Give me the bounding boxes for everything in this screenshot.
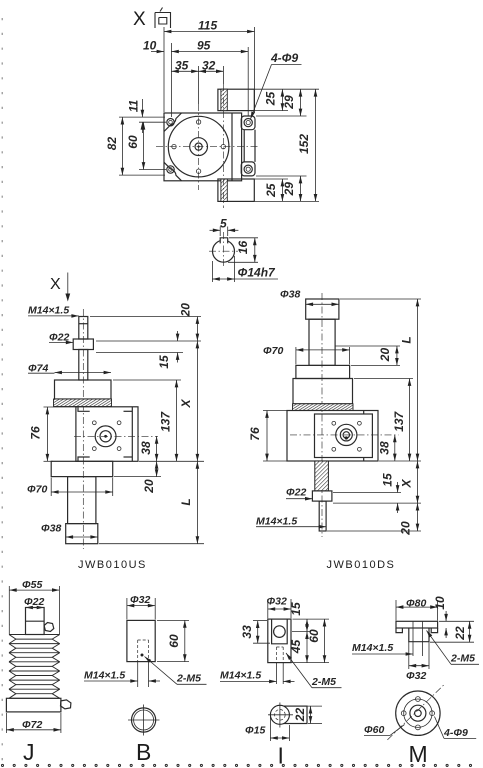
wheel hub hole xyxy=(195,143,202,150)
screw rod end M14 DS xyxy=(319,501,326,531)
svg-text:15: 15 xyxy=(381,473,395,487)
svg-text:15: 15 xyxy=(157,355,171,369)
svg-text:16: 16 xyxy=(236,241,250,255)
dim 33 I xyxy=(257,621,259,644)
dim 11 (outside arrows) xyxy=(141,99,143,117)
ext line flange hole column xyxy=(247,47,249,116)
ext flange top right xyxy=(256,115,307,117)
dim 20 chain DS xyxy=(417,503,419,531)
worm shaft circle mid DS xyxy=(340,429,352,441)
ext hole right below B xyxy=(148,662,150,687)
svg-text:JWB010DS: JWB010DS xyxy=(327,559,396,571)
svg-text:29: 29 xyxy=(282,95,296,110)
crosshair I xyxy=(268,714,293,716)
rod chamfer line xyxy=(79,323,88,325)
svg-text:20: 20 xyxy=(399,521,413,536)
bellows accordion xyxy=(9,635,60,699)
svg-text:Φ38: Φ38 xyxy=(280,289,300,301)
svg-text:22: 22 xyxy=(453,626,467,641)
svg-text:38: 38 xyxy=(378,441,392,455)
svg-text:20: 20 xyxy=(378,348,392,363)
top bush J xyxy=(26,608,45,635)
svg-text:76: 76 xyxy=(29,426,43,440)
dim 32 xyxy=(199,70,224,72)
worm axis centerline horizontal xyxy=(74,435,158,437)
svg-text:M14×1.5: M14×1.5 xyxy=(352,642,393,654)
dim 25 top xyxy=(281,89,283,110)
svg-text:M14×1.5: M14×1.5 xyxy=(28,305,69,317)
bush step line xyxy=(26,620,45,622)
ext stem left below M xyxy=(408,642,410,669)
tapped hole dashed I xyxy=(276,647,278,663)
inner square housing DS xyxy=(315,414,373,458)
dim 137 xyxy=(176,380,178,461)
ext 76 bottom DS xyxy=(263,460,290,462)
top cap phi74 DS xyxy=(293,379,353,404)
crosshair B xyxy=(128,719,160,721)
step top-left xyxy=(78,407,90,412)
ext 16 bottom xyxy=(228,261,258,263)
stem M xyxy=(409,628,429,642)
worm axis centerline DS xyxy=(290,434,399,436)
inner boss I xyxy=(272,619,288,644)
shaft circle xyxy=(213,240,235,262)
dim phi80 M xyxy=(396,606,438,608)
dim 115 xyxy=(164,31,255,33)
cover bolt BL DS xyxy=(332,447,336,451)
svg-text:L: L xyxy=(179,498,193,505)
ext line wheel center up xyxy=(198,66,200,104)
dim 60 I xyxy=(324,619,326,663)
svg-text:Φ55: Φ55 xyxy=(22,579,42,591)
svg-text:M14×1.5: M14×1.5 xyxy=(84,670,125,682)
ext 33 bottom I xyxy=(253,642,270,644)
ext stem right below M xyxy=(428,642,430,669)
seal ring band DS (hatched) xyxy=(293,404,354,411)
inner circle M xyxy=(410,705,426,721)
keyway slot xyxy=(220,237,227,243)
dim 76 DS xyxy=(266,411,268,462)
cover bolt TR DS xyxy=(358,421,362,425)
bolt hole top-left xyxy=(167,119,174,126)
svg-text:X: X xyxy=(400,479,414,489)
dim 38 xyxy=(156,436,158,461)
body internal right edge xyxy=(231,113,233,181)
bolt hole bottom-left xyxy=(167,166,174,173)
ext phi80 right M xyxy=(437,600,439,621)
flange plate DS xyxy=(296,365,350,378)
stop collar phi22 DS xyxy=(312,491,332,501)
svg-text:137: 137 xyxy=(392,410,406,431)
dim L chain DS xyxy=(417,299,419,461)
svg-text:Φ70: Φ70 xyxy=(263,345,283,357)
dim 5 (outside arrows) xyxy=(210,229,221,231)
dim 20 bottom xyxy=(156,461,158,476)
ext phi70 right DS xyxy=(349,347,351,364)
ext line worm center up xyxy=(222,66,224,84)
cover bolt BL xyxy=(92,447,96,451)
dim 45 I xyxy=(306,632,308,663)
ext phi32 left B xyxy=(126,598,128,619)
svg-text:Φ74: Φ74 xyxy=(28,362,48,374)
svg-text:60: 60 xyxy=(126,135,140,149)
dim 25 bottom xyxy=(281,179,283,201)
svg-text:95: 95 xyxy=(197,39,211,53)
ext 60 top B xyxy=(157,619,189,621)
dim 15 DS (outside arrows) xyxy=(397,482,399,493)
shaft centerline vertical xyxy=(223,232,225,268)
dim phi38 xyxy=(66,536,98,538)
dim 15 I xyxy=(306,619,308,632)
cover screw hole E xyxy=(221,144,225,148)
seal ring band (hatched) xyxy=(54,399,112,407)
ext tab top edge right xyxy=(255,88,319,90)
svg-text:10: 10 xyxy=(433,596,447,610)
dim 29 top xyxy=(300,89,302,116)
ext 76 bottom US xyxy=(44,460,54,462)
ext phi15 right I xyxy=(288,725,290,741)
ext phi72 right xyxy=(60,713,62,733)
ext 33 top I xyxy=(253,620,267,622)
flange pad bottom xyxy=(241,162,255,176)
ext flange bottom right xyxy=(256,175,307,177)
svg-text:Φ32: Φ32 xyxy=(130,594,150,606)
dim 20 upper DS xyxy=(396,346,398,365)
svg-text:M14×1.5: M14×1.5 xyxy=(256,515,297,527)
screw centerline xyxy=(82,309,84,549)
ext phi55 right xyxy=(58,586,60,634)
flange lip right M xyxy=(431,628,437,633)
dim 22 I xyxy=(310,706,312,723)
tapped hole lines M xyxy=(412,622,414,657)
flange pad top xyxy=(241,116,255,130)
svg-text:J: J xyxy=(23,739,35,765)
ext 82 bottom xyxy=(119,174,165,176)
flange lip left M xyxy=(396,628,402,633)
worm shaft circle inner DS xyxy=(343,432,349,438)
ext 76 top US xyxy=(44,406,78,408)
screw rod upper xyxy=(79,317,88,340)
M5 point dot B xyxy=(141,654,144,657)
dim phi72 xyxy=(6,729,61,731)
svg-text:Φ22: Φ22 xyxy=(24,596,44,608)
bolt hole N M xyxy=(416,697,421,702)
dim phi55 xyxy=(9,589,59,591)
cover bolt TL xyxy=(92,421,96,425)
ext rod top right xyxy=(90,316,201,318)
flange bolt hole top xyxy=(244,119,252,127)
dim 60 xyxy=(143,122,145,169)
bolt circle phi60 M xyxy=(404,699,432,727)
svg-text:25: 25 xyxy=(264,92,278,107)
dim X chain DS xyxy=(417,461,419,503)
cover bolt TL DS xyxy=(332,421,336,425)
protection tube DS xyxy=(309,319,335,365)
ext phi32 right I xyxy=(290,599,292,618)
ext body bottom right xyxy=(139,460,204,462)
corner chamfer top-left xyxy=(164,113,182,132)
ext keyway left xyxy=(219,227,221,237)
end view I : side tab xyxy=(283,706,307,723)
svg-text:X: X xyxy=(133,9,146,30)
dim phi74 xyxy=(55,372,112,374)
dim phi22 J xyxy=(26,607,45,609)
ext phi55 left xyxy=(8,586,10,634)
svg-text:Φ22: Φ22 xyxy=(49,332,69,344)
ext collar bottom right xyxy=(96,352,183,354)
worm tube tab bottom xyxy=(218,179,254,201)
ext cap top right xyxy=(113,379,181,381)
corner chamfer bottom-left xyxy=(164,162,182,181)
svg-text:32: 32 xyxy=(202,58,216,72)
svg-text:Φ70: Φ70 xyxy=(27,484,47,496)
svg-text:5: 5 xyxy=(220,217,227,231)
block I xyxy=(268,619,291,663)
grease fitting hex top xyxy=(44,623,54,632)
ext travel line DS xyxy=(335,345,400,347)
svg-text:2-M5: 2-M5 xyxy=(311,676,336,688)
svg-text:20: 20 xyxy=(179,303,193,318)
dim 10 xyxy=(151,51,164,53)
worm shaft center dot xyxy=(104,435,107,438)
svg-text:60: 60 xyxy=(167,634,181,648)
bottom cap phi38 xyxy=(66,524,98,544)
svg-text:JWB010US: JWB010US xyxy=(78,559,147,571)
dim 137 DS xyxy=(409,379,411,462)
dim L chain xyxy=(196,461,198,543)
flange web right edge xyxy=(254,130,256,162)
ext phi72 left xyxy=(5,713,7,733)
cover bolt TR xyxy=(117,421,121,425)
svg-text:Φ22: Φ22 xyxy=(286,487,306,499)
dim 152 xyxy=(315,89,317,201)
ext center I xyxy=(292,631,311,633)
dim phi32 M xyxy=(409,665,429,667)
svg-text:Φ32: Φ32 xyxy=(406,670,426,682)
ext phi70 left xyxy=(50,478,52,496)
svg-text:60: 60 xyxy=(307,629,321,643)
step marks DS right xyxy=(363,411,365,462)
worm shaft center dot DS xyxy=(345,436,348,439)
dim phi70 xyxy=(51,491,112,493)
svg-text:Φ72: Φ72 xyxy=(22,719,42,731)
ext tab top edge bottom right xyxy=(255,178,288,180)
cross hole circle I xyxy=(274,626,286,638)
svg-text:Φ32: Φ32 xyxy=(267,596,287,608)
svg-text:4-Φ9: 4-Φ9 xyxy=(270,51,299,65)
svg-text:B: B xyxy=(136,739,151,765)
worm shaft circle outer xyxy=(95,426,116,447)
end view circle I xyxy=(270,705,289,724)
ext cap top DS right xyxy=(340,298,421,300)
ext 60 top I xyxy=(293,618,330,620)
stop collar phi22 xyxy=(73,339,93,350)
svg-text:15: 15 xyxy=(289,602,303,616)
ext tab bottom edge right xyxy=(255,110,288,112)
end view circle B xyxy=(132,708,156,732)
bottom collar J xyxy=(6,698,61,712)
ext phi14 left xyxy=(211,261,213,282)
step bottom-right xyxy=(124,456,133,458)
ext flange top DS right xyxy=(351,364,400,366)
bottom view outer circle M xyxy=(396,691,440,735)
svg-text:22: 22 xyxy=(293,708,307,723)
svg-text:82: 82 xyxy=(105,137,119,151)
ext phi70 left DS xyxy=(295,347,297,364)
ext body bottom DS right xyxy=(379,460,421,462)
protection tube xyxy=(68,477,96,524)
svg-text:152: 152 xyxy=(297,134,311,154)
bottom flange plate xyxy=(51,461,112,476)
svg-text:33: 33 xyxy=(240,625,254,639)
svg-text:Φ80: Φ80 xyxy=(406,598,426,610)
svg-text:M: M xyxy=(409,741,428,767)
svg-text:Φ60: Φ60 xyxy=(364,724,384,736)
dim 82 xyxy=(121,117,123,175)
gear housing body xyxy=(76,407,138,462)
top cap phi74 xyxy=(55,380,112,399)
dashed hole circle I xyxy=(275,710,286,721)
svg-text:137: 137 xyxy=(159,411,173,432)
grease fitting hex bottom xyxy=(61,700,71,709)
ext tab bottom edge bottom right xyxy=(255,200,319,202)
cover screw hole S xyxy=(196,169,200,173)
svg-text:L: L xyxy=(400,336,414,343)
ext collar top right xyxy=(96,340,201,342)
dim 60 B xyxy=(184,620,186,661)
bolt hole W M xyxy=(401,711,406,716)
center point xyxy=(198,146,200,148)
ext phi32 left I xyxy=(267,599,269,618)
flange plate M xyxy=(396,621,438,628)
ext collar top DS right xyxy=(333,492,401,494)
side cover joint line xyxy=(131,407,133,462)
screw centerline DS xyxy=(321,293,323,537)
ext flange top right M xyxy=(439,620,474,622)
dim phi70 DS xyxy=(296,349,350,351)
centerline worm axis xyxy=(222,84,224,208)
bolt hole S M xyxy=(416,725,421,730)
svg-text:45: 45 xyxy=(289,640,303,655)
svg-text:X: X xyxy=(50,276,61,293)
svg-text:2-M5: 2-M5 xyxy=(450,653,475,665)
svg-text:35: 35 xyxy=(175,58,189,72)
ext line flange right xyxy=(254,27,256,113)
cover bolt BR xyxy=(117,447,121,451)
dim phi15 I xyxy=(270,737,289,739)
shaft centerline horizontal xyxy=(209,250,238,252)
svg-text:76: 76 xyxy=(248,427,262,441)
worm shaft circle outer DS xyxy=(336,424,357,445)
cover screw hole N xyxy=(196,120,200,124)
top cap phi38 xyxy=(306,299,339,319)
screw rod threaded (hatched) DS xyxy=(315,461,329,491)
svg-text:X: X xyxy=(179,399,193,409)
dim phi14h7 xyxy=(212,278,234,280)
ext 16 top xyxy=(229,237,258,239)
ext 60 bottom xyxy=(139,169,166,171)
ext keyway right xyxy=(227,227,229,237)
ext line bolt column xyxy=(170,43,172,117)
screw rod lower xyxy=(79,350,88,381)
gear housing body DS xyxy=(287,411,378,462)
worm wheel big circle xyxy=(168,116,229,177)
ext 60 bottom B xyxy=(157,661,189,663)
dim 20 top chain xyxy=(196,317,198,342)
svg-text:M14×1.5: M14×1.5 xyxy=(220,670,261,682)
svg-text:25: 25 xyxy=(264,183,278,198)
flange bolt hole bottom xyxy=(244,165,252,173)
dim 10 M (outside arrows) xyxy=(445,611,447,621)
page edge bottom dots xyxy=(1,764,471,766)
dim 35 xyxy=(171,70,198,72)
ext 60 bottom I xyxy=(269,662,329,664)
ext cap74 top DS right xyxy=(354,378,413,380)
dim 15 (outside arrows) xyxy=(177,331,179,341)
dim phi32 B xyxy=(127,605,155,607)
dim 22 M xyxy=(469,621,471,642)
centerline vertical wheel xyxy=(198,104,200,190)
svg-text:29: 29 xyxy=(282,182,296,197)
step top-right xyxy=(124,410,133,412)
flange web left edge xyxy=(243,130,245,162)
tapped hole dashed B xyxy=(137,640,139,662)
svg-text:10: 10 xyxy=(143,39,157,53)
ext flange bottom right xyxy=(114,476,161,478)
dim phi32 I xyxy=(268,608,291,610)
ext phi15 left I xyxy=(269,717,271,741)
step bottom-left xyxy=(78,457,90,461)
svg-text:11: 11 xyxy=(127,99,141,112)
ext phi80 left M xyxy=(395,600,397,621)
worm shaft hatch top xyxy=(221,89,227,110)
svg-text:Φ15: Φ15 xyxy=(245,725,265,737)
ext 22 bottom I xyxy=(308,723,322,725)
centerline horizontal wheel xyxy=(156,146,260,148)
bolt hole E M xyxy=(430,711,435,716)
ext stem bottom right M xyxy=(430,641,474,643)
dim 38 DS xyxy=(394,435,396,461)
dim 29 bottom xyxy=(300,176,302,201)
diagonal centerline M xyxy=(387,685,443,740)
wheel boss circle xyxy=(190,138,208,156)
dim phi38 inside cap xyxy=(306,303,339,305)
ext phi70 right xyxy=(112,478,114,496)
ext hole below I xyxy=(276,663,278,684)
dim 95 xyxy=(171,51,248,53)
ext 76 top DS xyxy=(263,410,290,412)
ext collar bottom DS right xyxy=(333,502,421,504)
svg-text:2-M5: 2-M5 xyxy=(176,673,201,685)
page edge left dashes xyxy=(1,18,3,768)
dim X chain xyxy=(196,341,198,461)
worm shaft hatch bottom xyxy=(221,179,227,201)
ext 82 top xyxy=(119,116,165,118)
svg-text:Φ38: Φ38 xyxy=(41,523,61,535)
svg-text:20: 20 xyxy=(142,479,156,494)
ext hole left below B xyxy=(137,662,139,687)
ext 60 top xyxy=(139,121,166,123)
cover screw hole W xyxy=(172,144,176,148)
cylinder B xyxy=(127,620,155,661)
ext 22 top I xyxy=(296,705,322,707)
ext rod bottom DS right xyxy=(327,530,421,532)
svg-text:115: 115 xyxy=(198,19,217,33)
dim 16 xyxy=(254,238,256,262)
ext phi14 right xyxy=(234,256,236,282)
svg-text:4-Φ9: 4-Φ9 xyxy=(443,727,468,739)
main housing body (plan) xyxy=(164,113,242,181)
